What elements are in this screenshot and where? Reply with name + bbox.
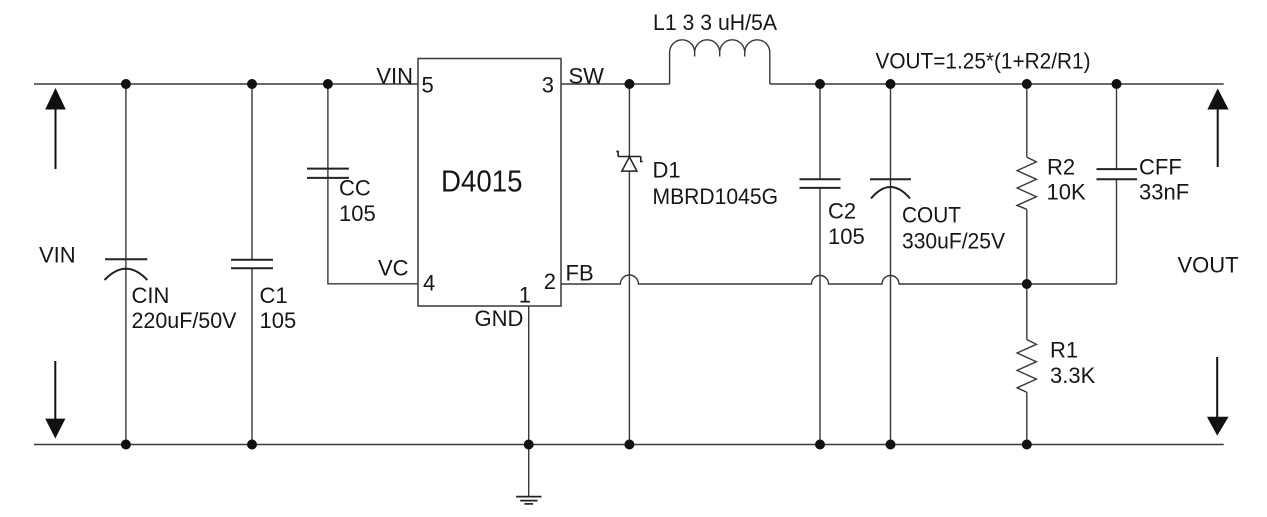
svg-text:L1 3 3 uH/5A: L1 3 3 uH/5A — [653, 10, 777, 35]
svg-text:330uF/25V: 330uF/25V — [902, 229, 1005, 254]
svg-text:4: 4 — [423, 271, 435, 296]
svg-text:MBRD1045G: MBRD1045G — [653, 184, 779, 209]
svg-text:105: 105 — [339, 201, 376, 226]
svg-text:3.3K: 3.3K — [1050, 363, 1096, 388]
svg-text:VOUT: VOUT — [1178, 253, 1239, 278]
svg-text:CFF: CFF — [1139, 155, 1182, 180]
svg-text:C2: C2 — [828, 199, 856, 224]
svg-text:SW: SW — [569, 64, 605, 89]
svg-text:VC: VC — [378, 256, 409, 281]
svg-text:220uF/50V: 220uF/50V — [132, 308, 237, 333]
svg-text:D4015: D4015 — [441, 164, 523, 199]
svg-text:CC: CC — [339, 176, 371, 201]
svg-text:105: 105 — [828, 224, 865, 249]
svg-text:105: 105 — [260, 308, 297, 333]
svg-text:10K: 10K — [1047, 180, 1086, 205]
svg-text:R1: R1 — [1050, 338, 1078, 363]
svg-text:C1: C1 — [260, 283, 288, 308]
svg-text:3: 3 — [542, 73, 554, 98]
svg-text:CIN: CIN — [132, 283, 170, 308]
svg-text:FB: FB — [566, 261, 594, 286]
svg-text:2: 2 — [544, 269, 556, 294]
svg-text:1: 1 — [519, 283, 531, 308]
svg-text:5: 5 — [422, 73, 434, 98]
svg-text:33nF: 33nF — [1139, 180, 1189, 205]
svg-text:VIN: VIN — [376, 64, 413, 89]
svg-text:R2: R2 — [1047, 155, 1075, 180]
svg-text:VIN: VIN — [39, 243, 76, 268]
svg-text:D1: D1 — [653, 158, 681, 183]
svg-text:VOUT=1.25*(1+R2/R1): VOUT=1.25*(1+R2/R1) — [876, 48, 1091, 73]
svg-text:GND: GND — [475, 306, 524, 331]
svg-text:COUT: COUT — [902, 203, 961, 228]
